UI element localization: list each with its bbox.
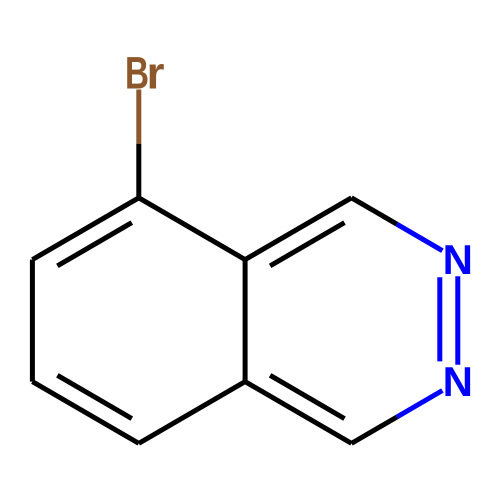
bond C8=C7 main line — [32, 198, 138, 260]
bond C5-C4a — [139, 382, 245, 444]
svg-text:r: r — [147, 48, 165, 99]
bond C1-N2 black half — [352, 198, 397, 224]
bond C6=C5 main line — [32, 382, 138, 444]
bond N3-C4 black half — [352, 417, 397, 443]
svg-text:B: B — [125, 48, 149, 99]
bond C8a=C1 main line — [245, 198, 351, 260]
bond C6=C5 inner line — [57, 375, 131, 418]
bond N2=N3 main line — [455, 276, 460, 365]
bond C8-Br brown half — [136, 90, 141, 144]
bond C7-C6 — [30, 260, 35, 382]
bond C8a-C8 — [139, 198, 245, 260]
svg-text:N: N — [443, 358, 473, 405]
bond C1-N2 blue half — [397, 224, 443, 251]
bond N3-C4 blue half — [397, 391, 443, 418]
bond N2=N3 inner line — [437, 277, 442, 361]
bond C4=C4a main line — [245, 382, 351, 444]
svg-text:N: N — [443, 236, 473, 283]
bond C8=C7 inner line — [57, 223, 131, 266]
bond C8a=C1 inner line — [270, 223, 344, 266]
bond C8-Br black half — [136, 144, 141, 198]
bond C4a-C8a ring fusion — [243, 260, 248, 382]
bond C4=C4a inner line — [270, 375, 344, 418]
